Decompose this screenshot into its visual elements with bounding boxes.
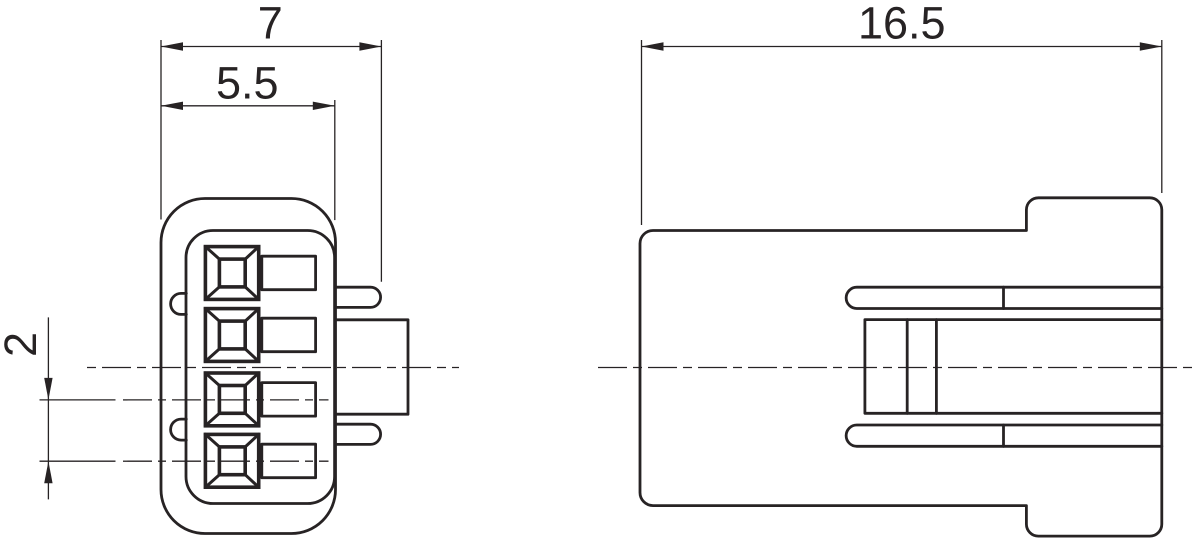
terminal cavity row 3 chamfer diagonals [205, 373, 258, 426]
svg-text:7: 7 [258, 0, 283, 49]
connector outer housing (front view) [161, 199, 336, 534]
terminal cavity row 2 outer square [205, 309, 258, 362]
terminal cavity row 4 outer square [205, 434, 258, 487]
terminal cavity row 2 inner square [219, 321, 245, 349]
dimension 2 line [47, 317, 49, 499]
dimension 2 upper extension line [40, 399, 116, 401]
lower lance slot (side view) [846, 425, 1162, 446]
dimension 16.5 left arrowhead [642, 42, 664, 50]
dimension 7 line [161, 46, 381, 48]
upper locking tab (right side, front view) [336, 287, 381, 307]
dimension 16.5 right extension line [1161, 40, 1163, 193]
dimension 7 right arrowhead [359, 42, 381, 50]
connector body outline (side view) [640, 198, 1162, 536]
secondary slot row 2 [262, 318, 316, 352]
dimension 7 right extension line [380, 40, 382, 282]
polarization notch lower (left wall) [171, 419, 187, 440]
terminal cavity row 3 outer square [205, 373, 258, 426]
dimension 5.5 left arrowhead [161, 102, 183, 110]
row 3 centerline [123, 399, 329, 401]
side latch boss (right side, front view) [336, 320, 409, 414]
connector inner cavity wall (front view) [186, 231, 335, 504]
dimension 2 down arrowhead [44, 378, 52, 400]
upper lance slot (side view) [846, 287, 1162, 308]
dimension 2 up arrowhead [44, 461, 52, 483]
svg-text:5.5: 5.5 [216, 58, 279, 109]
dimension 7 left arrowhead [161, 42, 183, 50]
secondary slot row 1 [262, 256, 316, 290]
dimension 5.5 line [161, 105, 335, 107]
lower lance slot tick [1002, 425, 1005, 446]
dimension 16.5 left extension line [641, 40, 643, 225]
secondary slot row 3 [262, 383, 316, 417]
latch channel rib 2 [935, 320, 938, 414]
main horizontal centerline (front view) [87, 367, 459, 369]
svg-text:16.5: 16.5 [858, 0, 946, 49]
dimension 2 lower extension line [40, 460, 116, 462]
dimension 16.5 line [642, 46, 1162, 48]
main horizontal centerline (side view) [598, 367, 1193, 369]
dimension 16.5 right arrowhead [1140, 42, 1162, 50]
dimension 7 left extension line [160, 40, 162, 220]
upper lance slot tick [1002, 287, 1005, 308]
terminal cavity row 1 outer square [205, 247, 258, 300]
terminal cavity row 3 inner square [219, 386, 245, 414]
lower locking tab (right side, front view) [336, 424, 381, 444]
terminal cavity row 4 chamfer diagonals [205, 434, 258, 487]
central latch channel (side view) [865, 320, 1162, 414]
polarization notch upper (left wall) [171, 293, 187, 314]
terminal cavity row 1 inner square [219, 259, 245, 287]
dimension 5.5 right arrowhead [313, 102, 335, 110]
latch channel rib 1 [906, 320, 909, 414]
terminal cavity row 4 inner square [219, 447, 245, 475]
svg-text:2: 2 [0, 332, 46, 357]
secondary slot row 4 [262, 444, 316, 478]
terminal cavity row 2 chamfer diagonals [205, 309, 258, 362]
terminal cavity row 1 chamfer diagonals [205, 247, 258, 300]
dimension 5.5 right extension line [334, 100, 336, 220]
row 4 centerline [123, 460, 329, 462]
